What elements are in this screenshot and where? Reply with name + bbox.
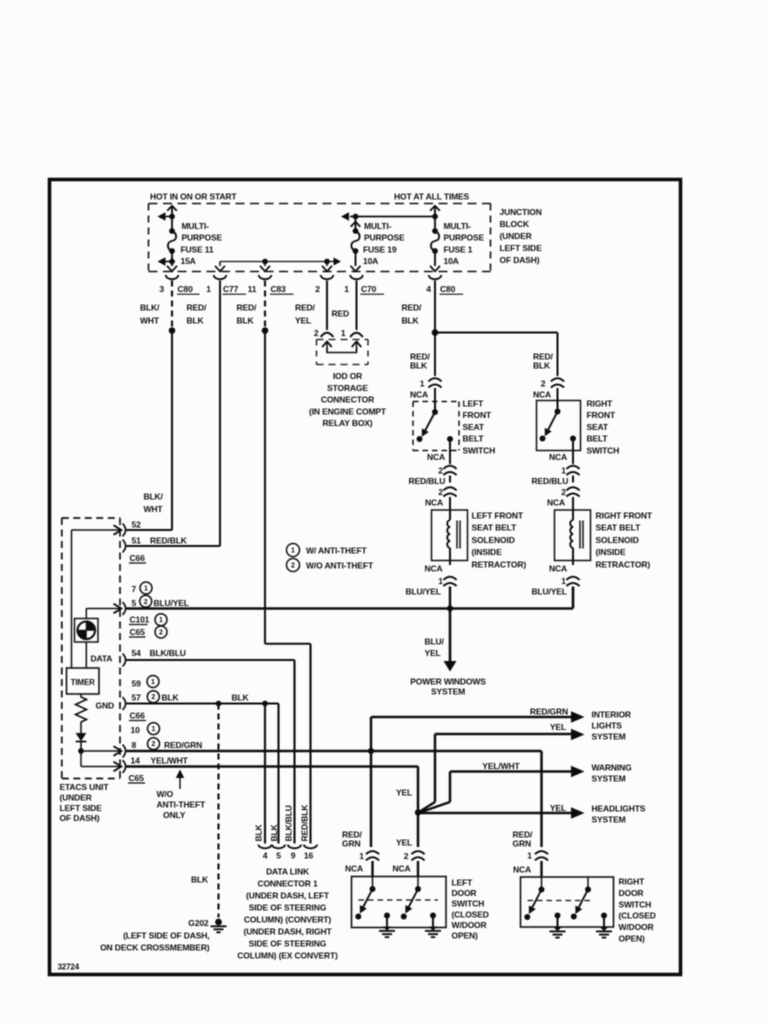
svg-text:14: 14	[131, 756, 141, 766]
svg-text:LEFT: LEFT	[452, 878, 474, 888]
svg-text:PURPOSE: PURPOSE	[444, 233, 485, 243]
svg-text:4: 4	[263, 851, 268, 861]
svg-text:NCA: NCA	[513, 865, 531, 875]
svg-text:BLK: BLK	[254, 823, 264, 841]
svg-text:NCA: NCA	[547, 498, 565, 508]
svg-text:NCA: NCA	[393, 864, 411, 874]
svg-text:3: 3	[159, 284, 164, 294]
svg-text:RIGHT: RIGHT	[619, 877, 646, 887]
svg-text:BLK: BLK	[410, 361, 428, 371]
svg-text:11: 11	[248, 284, 257, 294]
svg-text:(UNDER: (UNDER	[500, 231, 532, 241]
svg-text:DOOR: DOOR	[619, 888, 644, 898]
svg-text:10: 10	[131, 725, 141, 735]
svg-text:2: 2	[438, 487, 443, 497]
svg-text:1: 1	[359, 851, 364, 861]
svg-text:W/O ANTI-THEFT: W/O ANTI-THEFT	[306, 561, 374, 571]
svg-text:BLK: BLK	[237, 316, 255, 326]
svg-text:NCA: NCA	[345, 864, 363, 874]
svg-text:BLK: BLK	[269, 823, 279, 841]
svg-text:RED/: RED/	[237, 303, 257, 313]
svg-text:SWITCH: SWITCH	[619, 899, 652, 909]
svg-text:RELAY BOX): RELAY BOX)	[323, 418, 373, 428]
svg-text:C80: C80	[178, 284, 194, 294]
svg-text:8: 8	[132, 740, 137, 750]
svg-text:BLK: BLK	[191, 875, 209, 885]
svg-text:SIDE OF STEERING: SIDE OF STEERING	[249, 939, 327, 949]
svg-text:RED/GRN: RED/GRN	[530, 707, 568, 717]
svg-text:ANTI-THEFT: ANTI-THEFT	[157, 800, 207, 810]
svg-text:BLU/YEL: BLU/YEL	[406, 587, 441, 597]
svg-text:9: 9	[291, 851, 296, 861]
svg-text:MULTI-: MULTI-	[444, 221, 472, 231]
svg-text:SYSTEM: SYSTEM	[592, 732, 626, 742]
svg-text:WARNING: WARNING	[592, 763, 633, 773]
svg-text:SEAT BELT: SEAT BELT	[596, 523, 642, 533]
svg-text:W/DOOR: W/DOOR	[452, 920, 487, 930]
svg-text:MULTI-: MULTI-	[182, 221, 210, 231]
svg-text:LEFT: LEFT	[463, 399, 485, 409]
svg-text:32724: 32724	[58, 963, 80, 972]
svg-text:2: 2	[315, 284, 320, 294]
svg-text:52: 52	[132, 520, 142, 530]
svg-text:HEADLIGHTS: HEADLIGHTS	[592, 804, 646, 814]
svg-text:SEAT: SEAT	[587, 422, 609, 432]
svg-text:BLK: BLK	[533, 361, 551, 371]
svg-text:NCA: NCA	[533, 390, 551, 400]
svg-text:WHT: WHT	[140, 316, 160, 326]
svg-text:BLOCK: BLOCK	[500, 219, 530, 229]
svg-text:C65: C65	[129, 773, 145, 783]
svg-text:BLK/BLU: BLK/BLU	[150, 648, 186, 658]
svg-text:C80: C80	[440, 284, 456, 294]
svg-text:1: 1	[527, 851, 532, 861]
svg-text:COLUMN) (EX CONVERT): COLUMN) (EX CONVERT)	[237, 951, 338, 961]
svg-text:RIGHT FRONT: RIGHT FRONT	[596, 511, 653, 521]
svg-text:C66: C66	[130, 711, 146, 721]
svg-text:1: 1	[341, 328, 346, 338]
svg-text:2: 2	[152, 741, 156, 748]
svg-text:BLU/YEL: BLU/YEL	[154, 598, 189, 608]
svg-text:2: 2	[159, 630, 163, 637]
svg-text:1: 1	[144, 586, 148, 593]
svg-text:FUSE 11: FUSE 11	[181, 245, 214, 255]
svg-text:1: 1	[344, 284, 349, 294]
svg-text:BLK/: BLK/	[144, 492, 164, 502]
svg-text:54: 54	[132, 648, 142, 658]
svg-text:SOLENOID: SOLENOID	[596, 535, 639, 545]
svg-text:LIGHTS: LIGHTS	[592, 721, 623, 731]
svg-text:ON DECK CROSSMEMBER): ON DECK CROSSMEMBER)	[100, 943, 210, 953]
svg-text:(CLOSED: (CLOSED	[452, 909, 489, 919]
svg-text:RED/BLK: RED/BLK	[300, 804, 310, 842]
svg-text:G202: G202	[188, 918, 209, 928]
svg-text:GND: GND	[96, 701, 114, 711]
svg-text:(UNDER DASH, RIGHT: (UNDER DASH, RIGHT	[244, 927, 333, 937]
svg-text:DATA LINK: DATA LINK	[266, 867, 310, 877]
svg-text:NCA: NCA	[425, 564, 443, 574]
svg-text:BLK: BLK	[232, 693, 250, 703]
svg-text:LEFT SIDE: LEFT SIDE	[60, 803, 103, 813]
svg-text:RETRACTOR): RETRACTOR)	[596, 559, 651, 569]
svg-text:W/ ANTI-THEFT: W/ ANTI-THEFT	[306, 546, 367, 556]
svg-text:SEAT: SEAT	[463, 422, 485, 432]
svg-text:(INSIDE: (INSIDE	[596, 547, 627, 557]
svg-text:MULTI-: MULTI-	[364, 221, 392, 231]
svg-text:SIDE OF STEERING: SIDE OF STEERING	[249, 903, 327, 913]
svg-text:HOT IN ON OR START: HOT IN ON OR START	[150, 192, 237, 202]
svg-text:NCA: NCA	[410, 390, 428, 400]
svg-text:1: 1	[159, 617, 163, 624]
svg-text:7: 7	[132, 584, 137, 594]
svg-text:RED/: RED/	[402, 303, 422, 313]
svg-text:SOLENOID: SOLENOID	[472, 535, 515, 545]
svg-text:(UNDER: (UNDER	[60, 792, 92, 802]
svg-text:OPEN): OPEN)	[619, 934, 645, 944]
svg-text:CONNECTOR 1: CONNECTOR 1	[257, 879, 317, 889]
svg-text:RED/: RED/	[295, 303, 315, 313]
svg-text:51: 51	[132, 536, 142, 546]
svg-text:YEL/WHT: YEL/WHT	[151, 756, 189, 766]
svg-text:C65: C65	[130, 627, 146, 637]
svg-text:10A: 10A	[444, 256, 459, 266]
svg-text:1: 1	[438, 576, 443, 586]
svg-text:BLU/: BLU/	[425, 637, 445, 647]
svg-text:(INSIDE: (INSIDE	[472, 547, 503, 557]
svg-text:4: 4	[426, 284, 431, 294]
svg-text:1: 1	[561, 576, 566, 586]
svg-text:15A: 15A	[181, 256, 196, 266]
svg-text:IOD OR: IOD OR	[333, 371, 362, 381]
svg-text:RED/BLK: RED/BLK	[150, 536, 188, 546]
svg-text:59: 59	[132, 679, 142, 689]
svg-text:ETACS UNIT: ETACS UNIT	[60, 782, 110, 792]
svg-text:2: 2	[404, 851, 409, 861]
svg-text:2: 2	[144, 599, 148, 606]
svg-text:RED/: RED/	[187, 303, 207, 313]
svg-text:DATA: DATA	[91, 654, 113, 664]
svg-text:BLK: BLK	[162, 693, 180, 703]
svg-text:YEL: YEL	[550, 722, 566, 732]
svg-text:SEAT BELT: SEAT BELT	[472, 523, 518, 533]
svg-text:C77: C77	[223, 284, 239, 294]
svg-text:YEL: YEL	[550, 803, 566, 813]
svg-text:10A: 10A	[363, 256, 378, 266]
svg-text:YEL: YEL	[425, 648, 441, 658]
svg-text:GRN: GRN	[342, 839, 360, 849]
svg-text:(IN ENGINE COMPT: (IN ENGINE COMPT	[309, 406, 387, 416]
svg-text:BELT: BELT	[587, 434, 609, 444]
svg-text:1: 1	[420, 379, 425, 389]
svg-text:NCA: NCA	[549, 452, 567, 462]
svg-text:FRONT: FRONT	[587, 410, 616, 420]
svg-text:NCA: NCA	[427, 452, 445, 462]
svg-text:JUNCTION: JUNCTION	[500, 207, 542, 217]
svg-text:C101: C101	[130, 615, 150, 625]
svg-text:OF DASH): OF DASH)	[500, 255, 540, 265]
svg-text:RED/GRN: RED/GRN	[164, 740, 202, 750]
svg-text:YEL/WHT: YEL/WHT	[482, 761, 520, 771]
svg-text:SWITCH: SWITCH	[452, 899, 485, 909]
svg-text:FUSE 19: FUSE 19	[363, 245, 397, 255]
svg-text:(UNDER DASH, LEFT: (UNDER DASH, LEFT	[246, 891, 330, 901]
svg-text:POWER WINDOWS: POWER WINDOWS	[410, 677, 486, 687]
svg-text:SWITCH: SWITCH	[587, 445, 620, 455]
svg-text:YEL: YEL	[295, 316, 311, 326]
svg-text:CONNECTOR: CONNECTOR	[321, 395, 374, 405]
svg-text:1: 1	[152, 726, 156, 733]
svg-text:BELT: BELT	[463, 434, 485, 444]
svg-text:ONLY: ONLY	[163, 810, 186, 820]
svg-text:2: 2	[561, 487, 566, 497]
svg-text:RED: RED	[332, 309, 350, 319]
svg-text:RETRACTOR): RETRACTOR)	[472, 559, 527, 569]
svg-text:RIGHT: RIGHT	[587, 399, 614, 409]
svg-text:RED/BLU: RED/BLU	[532, 476, 569, 486]
svg-text:OF DASH): OF DASH)	[60, 813, 100, 823]
svg-text:OPEN): OPEN)	[452, 931, 478, 941]
svg-text:HOT AT ALL TIMES: HOT AT ALL TIMES	[394, 192, 470, 202]
svg-text:GRN: GRN	[513, 839, 531, 849]
svg-text:2: 2	[314, 328, 319, 338]
svg-text:16: 16	[304, 851, 314, 861]
svg-text:2: 2	[151, 694, 155, 701]
svg-text:DOOR: DOOR	[452, 888, 477, 898]
svg-text:W/O: W/O	[157, 789, 174, 799]
svg-text:STORAGE: STORAGE	[327, 383, 368, 393]
svg-text:FRONT: FRONT	[463, 410, 492, 420]
svg-text:LEFT SIDE: LEFT SIDE	[500, 243, 543, 253]
svg-text:1: 1	[291, 548, 295, 555]
svg-text:2: 2	[291, 563, 295, 570]
svg-text:SYSTEM: SYSTEM	[592, 815, 626, 825]
svg-text:WHT: WHT	[144, 504, 164, 514]
svg-text:5: 5	[132, 598, 137, 608]
svg-text:2: 2	[438, 466, 443, 476]
svg-text:(LEFT SIDE OF DASH,: (LEFT SIDE OF DASH,	[123, 931, 209, 941]
svg-text:BLK/BLU: BLK/BLU	[284, 805, 294, 841]
svg-text:1: 1	[206, 284, 211, 294]
svg-text:NCA: NCA	[549, 564, 567, 574]
svg-text:C83: C83	[271, 284, 287, 294]
svg-text:BLU/YEL: BLU/YEL	[532, 587, 567, 597]
svg-text:1: 1	[151, 679, 155, 686]
svg-text:NCA: NCA	[425, 498, 443, 508]
svg-text:BLK: BLK	[187, 316, 205, 326]
svg-text:LEFT FRONT: LEFT FRONT	[472, 511, 524, 521]
svg-text:BLK: BLK	[402, 316, 420, 326]
svg-text:FUSE 1: FUSE 1	[444, 245, 473, 255]
svg-text:SYSTEM: SYSTEM	[592, 774, 626, 784]
svg-text:(CLOSED: (CLOSED	[619, 911, 656, 921]
svg-text:C70: C70	[361, 284, 377, 294]
svg-text:1: 1	[561, 466, 566, 476]
svg-text:BLK/: BLK/	[140, 303, 160, 313]
svg-text:2: 2	[541, 379, 546, 389]
svg-text:5: 5	[276, 851, 281, 861]
svg-text:TIMER: TIMER	[71, 678, 96, 687]
svg-text:57: 57	[132, 693, 142, 703]
svg-text:W/DOOR: W/DOOR	[619, 922, 654, 932]
svg-text:YEL: YEL	[396, 788, 412, 798]
svg-text:C66: C66	[130, 553, 146, 563]
svg-text:SYSTEM: SYSTEM	[431, 687, 465, 697]
svg-text:RED/BLU: RED/BLU	[409, 476, 446, 486]
svg-text:INTERIOR: INTERIOR	[592, 710, 631, 720]
svg-text:PURPOSE: PURPOSE	[364, 233, 405, 243]
svg-text:YEL: YEL	[396, 838, 412, 848]
svg-text:SWITCH: SWITCH	[463, 445, 496, 455]
svg-text:COLUMN) (CONVERT): COLUMN) (CONVERT)	[244, 915, 331, 925]
svg-text:PURPOSE: PURPOSE	[182, 233, 223, 243]
